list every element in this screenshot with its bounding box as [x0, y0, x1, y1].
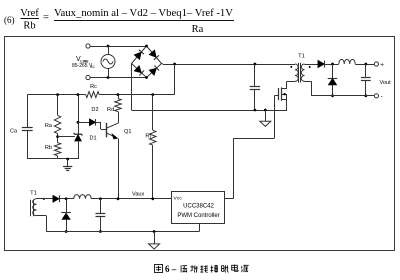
svg-text:AC: AC	[91, 65, 96, 69]
svg-text:PWM Controller: PWM Controller	[177, 213, 219, 219]
svg-text:T1: T1	[298, 54, 305, 60]
svg-text:Ra: Ra	[192, 24, 204, 35]
svg-text:Vout: Vout	[380, 80, 392, 86]
svg-text:Rb: Rb	[23, 21, 35, 32]
svg-text:UCC38C42: UCC38C42	[183, 203, 214, 209]
svg-text:Rd: Rd	[107, 107, 114, 113]
svg-text:Vaux: Vaux	[132, 192, 145, 198]
svg-text:Vaux_nomin al – Vd2 – Vbeq1– V: Vaux_nomin al – Vd2 – Vbeq1– Vref -1V	[54, 8, 233, 19]
svg-text:Ra: Ra	[45, 123, 53, 129]
svg-text:D1: D1	[90, 136, 97, 142]
svg-text:D2: D2	[91, 107, 98, 113]
svg-text:6 –: 6 –	[165, 264, 177, 274]
svg-text:Vref: Vref	[20, 8, 39, 19]
svg-text:Q1: Q1	[124, 129, 131, 135]
svg-text:-: -	[381, 93, 383, 100]
svg-text:T1: T1	[30, 191, 37, 197]
svg-text:Vcc: Vcc	[174, 196, 183, 202]
svg-text:Rc: Rc	[90, 84, 97, 90]
svg-text:+: +	[380, 61, 384, 68]
svg-text:Rb: Rb	[45, 145, 52, 151]
svg-text:(6): (6)	[4, 15, 15, 25]
svg-text:Rt: Rt	[145, 134, 151, 140]
svg-text:Ca: Ca	[10, 129, 18, 135]
svg-text:=: =	[43, 13, 49, 24]
